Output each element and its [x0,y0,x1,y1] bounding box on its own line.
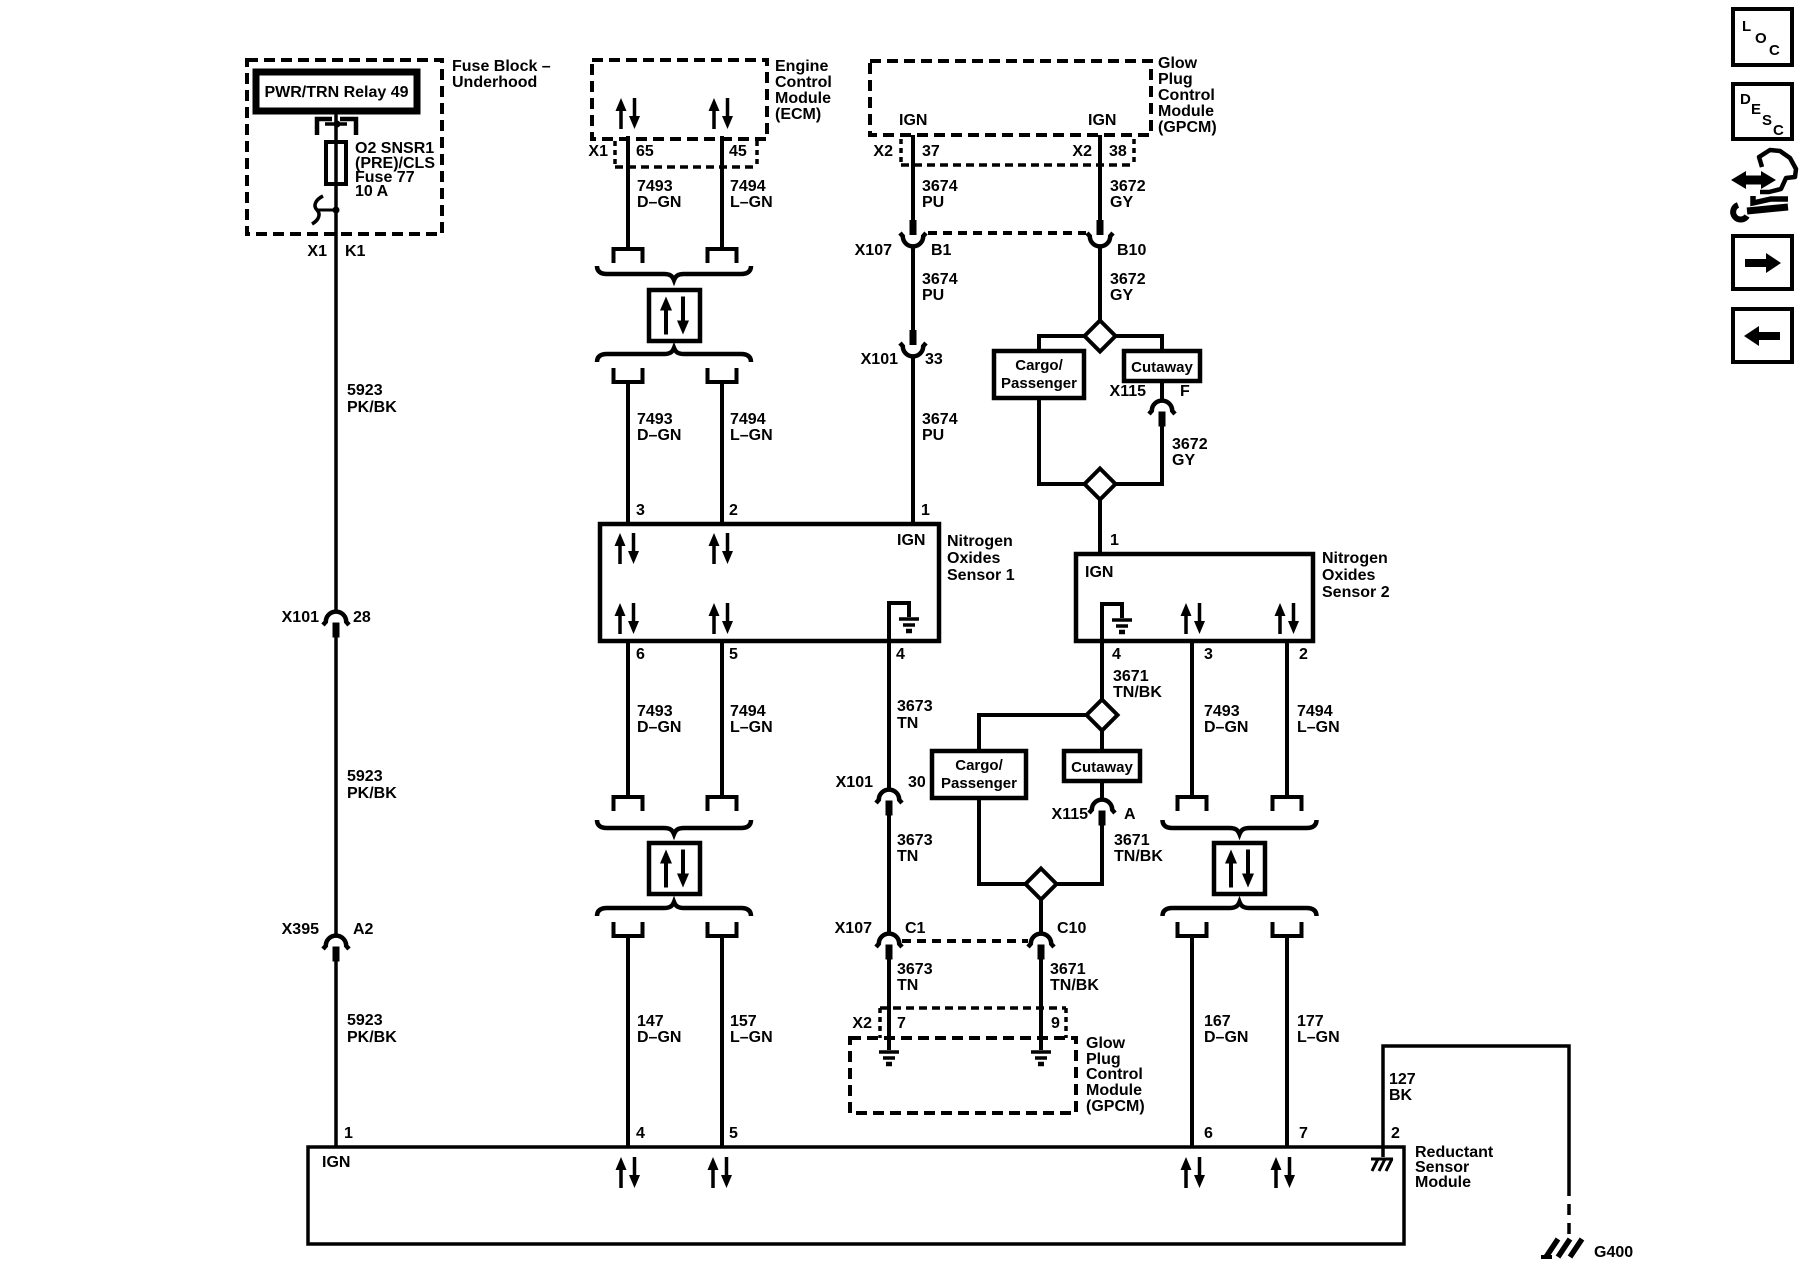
svg-text:6: 6 [636,646,645,663]
svg-text:Oxides: Oxides [1322,567,1375,584]
svg-text:D–GN: D–GN [637,194,681,211]
svg-text:C: C [1769,42,1780,59]
svg-text:GY: GY [1172,452,1195,469]
svg-text:O: O [1755,30,1767,47]
svg-text:TN/BK: TN/BK [1113,684,1162,701]
svg-text:177: 177 [1297,1013,1324,1030]
svg-text:Engine: Engine [775,58,828,75]
svg-text:7494: 7494 [730,703,766,720]
svg-text:127: 127 [1389,1071,1416,1088]
svg-text:(ECM): (ECM) [775,106,821,123]
svg-text:TN/BK: TN/BK [1114,848,1163,865]
svg-text:IGN: IGN [1088,112,1116,129]
svg-text:5923: 5923 [347,1012,383,1029]
svg-text:1: 1 [344,1125,353,1142]
svg-text:7494: 7494 [1297,703,1333,720]
svg-text:X107: X107 [855,242,892,259]
svg-text:38: 38 [1109,143,1127,160]
svg-text:3674: 3674 [922,178,958,195]
svg-text:X1: X1 [588,143,608,160]
svg-text:Nitrogen: Nitrogen [1322,550,1388,567]
svg-text:3: 3 [1204,646,1213,663]
svg-text:7494: 7494 [730,178,766,195]
svg-text:D–GN: D–GN [637,427,681,444]
svg-text:F: F [1180,383,1190,400]
svg-text:IGN: IGN [322,1154,350,1171]
svg-text:TN: TN [897,848,918,865]
svg-text:3671: 3671 [1113,668,1149,685]
svg-text:X115: X115 [1110,383,1147,400]
svg-text:3672: 3672 [1110,271,1146,288]
svg-text:X101: X101 [282,609,319,626]
svg-text:D–GN: D–GN [637,719,681,736]
svg-text:4: 4 [636,1125,645,1142]
svg-text:(GPCM): (GPCM) [1158,119,1217,136]
svg-text:1: 1 [921,502,930,519]
svg-text:167: 167 [1204,1013,1231,1030]
svg-text:10 A: 10 A [355,183,389,200]
svg-text:2: 2 [1391,1125,1400,1142]
svg-text:G400: G400 [1594,1244,1633,1261]
svg-text:Module: Module [1158,103,1214,120]
svg-text:E: E [1751,101,1761,118]
svg-text:7494: 7494 [730,411,766,428]
svg-text:Sensor 1: Sensor 1 [947,567,1015,584]
svg-text:Oxides: Oxides [947,550,1000,567]
svg-text:157: 157 [730,1013,757,1030]
svg-text:Module: Module [775,90,831,107]
svg-text:Nitrogen: Nitrogen [947,533,1013,550]
svg-text:K1: K1 [345,243,366,260]
svg-text:28: 28 [353,609,371,626]
svg-text:7493: 7493 [637,178,673,195]
svg-text:45: 45 [729,143,747,160]
svg-text:X2: X2 [873,143,893,160]
svg-text:PU: PU [922,287,944,304]
svg-text:Fuse Block –: Fuse Block – [452,58,551,75]
svg-text:X107: X107 [835,920,872,937]
svg-text:Control: Control [1158,87,1215,104]
svg-text:4: 4 [1112,646,1121,663]
svg-text:3673: 3673 [897,961,933,978]
svg-text:X2: X2 [1072,143,1092,160]
svg-text:3672: 3672 [1172,436,1208,453]
svg-text:GY: GY [1110,287,1133,304]
svg-text:PK/BK: PK/BK [347,785,397,802]
svg-text:IGN: IGN [899,112,927,129]
svg-text:TN/BK: TN/BK [1050,977,1099,994]
svg-text:33: 33 [925,351,943,368]
svg-text:L–GN: L–GN [1297,719,1340,736]
svg-text:BK: BK [1389,1087,1413,1104]
svg-text:A: A [1124,806,1136,823]
svg-text:2: 2 [729,502,738,519]
svg-text:3672: 3672 [1110,178,1146,195]
svg-text:IGN: IGN [1085,564,1113,581]
svg-text:X395: X395 [282,921,319,938]
svg-text:GY: GY [1110,194,1133,211]
svg-text:L–GN: L–GN [730,719,773,736]
svg-text:9: 9 [1051,1015,1060,1032]
svg-text:6: 6 [1204,1125,1213,1142]
svg-text:Cargo/: Cargo/ [1015,357,1063,374]
svg-text:Underhood: Underhood [452,74,537,91]
svg-text:X101: X101 [836,774,873,791]
svg-text:X115: X115 [1052,806,1089,823]
svg-text:B10: B10 [1117,242,1146,259]
svg-text:Plug: Plug [1158,71,1193,88]
svg-text:S: S [1762,112,1772,129]
svg-text:Control: Control [1086,1066,1143,1083]
svg-text:7493: 7493 [637,703,673,720]
svg-text:5: 5 [729,646,738,663]
svg-text:PU: PU [922,194,944,211]
svg-text:L–GN: L–GN [730,1029,773,1046]
svg-text:Control: Control [775,74,832,91]
svg-text:Passenger: Passenger [1001,375,1077,392]
svg-text:3674: 3674 [922,411,958,428]
svg-text:30: 30 [908,774,926,791]
svg-text:3: 3 [636,502,645,519]
svg-text:C1: C1 [905,920,926,937]
svg-text:Cargo/: Cargo/ [955,757,1003,774]
svg-text:C10: C10 [1057,920,1086,937]
svg-text:TN: TN [897,977,918,994]
svg-text:4: 4 [896,646,905,663]
svg-text:Module: Module [1415,1174,1471,1191]
svg-text:X2: X2 [852,1015,872,1032]
svg-text:D–GN: D–GN [1204,1029,1248,1046]
svg-text:3673: 3673 [897,698,933,715]
svg-text:IGN: IGN [897,532,925,549]
svg-text:65: 65 [636,143,654,160]
svg-text:PK/BK: PK/BK [347,399,397,416]
svg-text:D–GN: D–GN [637,1029,681,1046]
svg-text:L–GN: L–GN [730,194,773,211]
svg-text:7493: 7493 [637,411,673,428]
svg-text:D–GN: D–GN [1204,719,1248,736]
svg-text:X1: X1 [307,243,327,260]
svg-text:Glow: Glow [1158,55,1198,72]
svg-text:Glow: Glow [1086,1035,1126,1052]
svg-text:L: L [1742,18,1751,35]
svg-text:A2: A2 [353,921,374,938]
svg-text:7: 7 [897,1015,906,1032]
svg-text:1: 1 [1110,532,1119,549]
svg-text:7493: 7493 [1204,703,1240,720]
svg-text:D: D [1740,91,1751,108]
svg-text:5923: 5923 [347,768,383,785]
svg-text:7: 7 [1299,1125,1308,1142]
svg-text:147: 147 [637,1013,664,1030]
svg-text:Module: Module [1086,1082,1142,1099]
svg-text:37: 37 [922,143,940,160]
svg-text:X101: X101 [861,351,898,368]
svg-text:3674: 3674 [922,271,958,288]
svg-text:5: 5 [729,1125,738,1142]
svg-text:TN: TN [897,715,918,732]
svg-text:Passenger: Passenger [941,775,1017,792]
svg-text:Cutaway: Cutaway [1071,759,1133,776]
svg-text:L–GN: L–GN [1297,1029,1340,1046]
svg-text:5923: 5923 [347,382,383,399]
svg-text:2: 2 [1299,646,1308,663]
svg-text:PK/BK: PK/BK [347,1029,397,1046]
svg-text:PWR/TRN Relay 49: PWR/TRN Relay 49 [264,84,408,101]
svg-text:B1: B1 [931,242,952,259]
svg-text:Cutaway: Cutaway [1131,359,1193,376]
svg-text:3671: 3671 [1050,961,1086,978]
svg-text:3673: 3673 [897,832,933,849]
svg-text:PU: PU [922,427,944,444]
svg-text:(GPCM): (GPCM) [1086,1098,1145,1115]
svg-text:Sensor 2: Sensor 2 [1322,584,1390,601]
svg-text:C: C [1773,122,1784,139]
svg-text:3671: 3671 [1114,832,1150,849]
svg-text:L–GN: L–GN [730,427,773,444]
